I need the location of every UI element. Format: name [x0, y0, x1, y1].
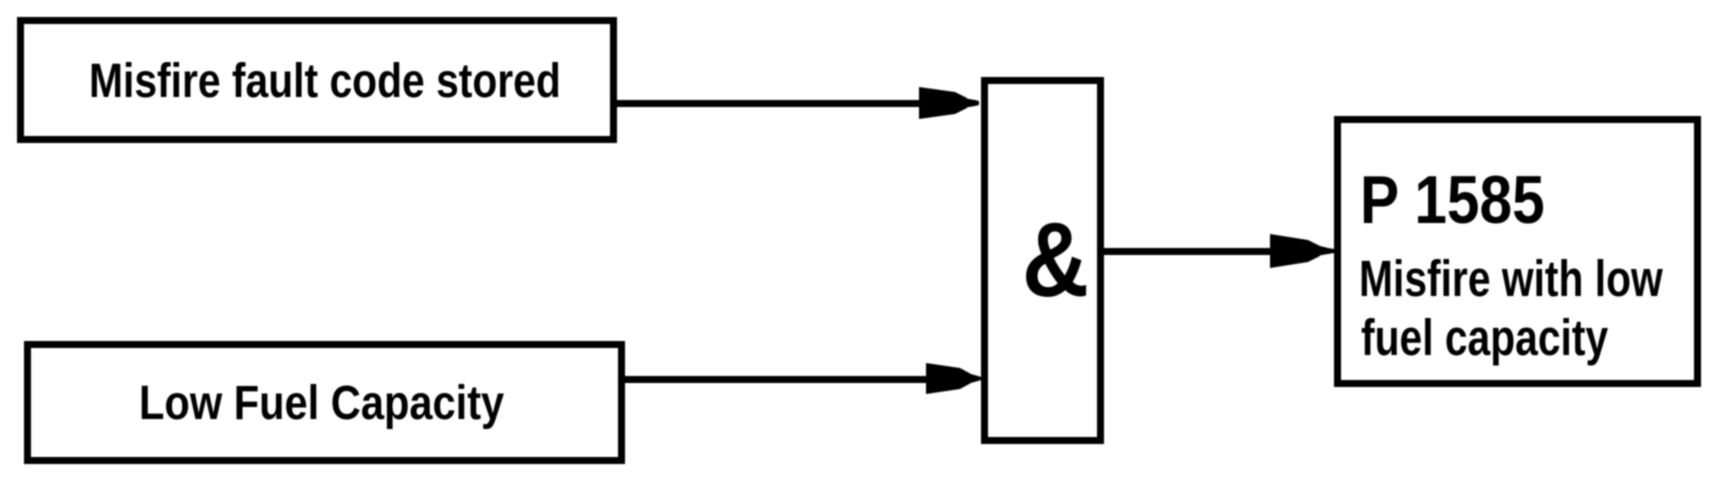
- wire: box1 to AND gate: [617, 100, 922, 107]
- label: Misfire fault code stored: [89, 54, 561, 109]
- output box: P 1585: [1334, 116, 1701, 387]
- label: Low Fuel Capacity: [139, 376, 504, 431]
- wire: box2 to AND gate: [625, 376, 930, 383]
- input box: Low Fuel Capacity: [24, 341, 625, 464]
- arrowhead into AND top input: [919, 87, 981, 119]
- wire: AND gate to output box: [1104, 248, 1276, 255]
- label: P 1585: [1360, 161, 1545, 239]
- label: Misfire with low / fuel capacity: [1359, 253, 1663, 304]
- label: fuel capacity: [1361, 312, 1608, 363]
- input box: Misfire fault code stored: [17, 17, 617, 143]
- AND gate U1: [981, 77, 1104, 444]
- label: &: [1022, 200, 1089, 321]
- arrowhead into AND bottom input: [926, 363, 982, 394]
- arrowhead into output box: [1270, 234, 1334, 268]
